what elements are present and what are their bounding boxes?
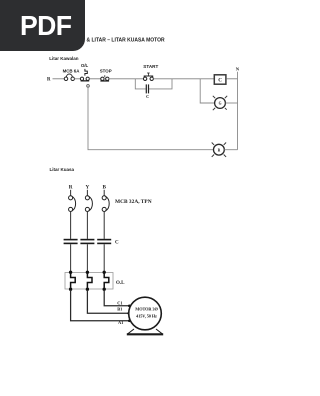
- svg-text:R: R: [47, 78, 51, 83]
- motor terminal C1: [128, 305, 131, 308]
- breaker MCB 6A: [64, 74, 74, 81]
- wire lamp R to N: [224, 149, 237, 151]
- svg-text:Litar Kuasa: Litar Kuasa: [50, 167, 75, 172]
- svg-text:Y: Y: [86, 185, 90, 191]
- breaker MCB pole Y: [85, 196, 92, 212]
- svg-text:R: R: [218, 148, 221, 152]
- wire Y MCB to contact: [86, 211, 88, 239]
- wire B contact to O/L: [103, 244, 105, 272]
- wire R contact to O/L: [70, 244, 72, 272]
- wire B MCB to contact: [103, 211, 105, 239]
- svg-text:A1: A1: [118, 320, 123, 325]
- wire R to motor A1: [71, 291, 129, 321]
- wire START to coil C: [153, 78, 214, 80]
- contact C pole R (contactor main): [64, 239, 78, 244]
- svg-text:MCB 6A: MCB 6A: [63, 69, 81, 74]
- wire R MCB to contact: [70, 211, 72, 239]
- pushbutton STOP (NC): [100, 75, 109, 81]
- wire branch down to lamp G: [200, 79, 214, 103]
- wire coil to N: [226, 78, 237, 80]
- svg-text:B: B: [102, 185, 106, 191]
- coil C (contactor coil): [214, 75, 226, 84]
- wire N line: [237, 72, 239, 150]
- motor terminal A1: [128, 320, 131, 323]
- contact C (holding contact): [146, 84, 149, 93]
- wire phase Y top: [86, 190, 88, 196]
- heater element pole Y: [86, 271, 92, 291]
- lamp G (run indicator): [213, 96, 227, 110]
- motor M (3 phase): [129, 297, 162, 330]
- svg-text:START: START: [143, 64, 158, 69]
- svg-text:B1: B1: [117, 307, 122, 312]
- wire STOP to START: [109, 78, 144, 80]
- svg-text:& LITAR – LITAR KUASA MOTOR: & LITAR – LITAR KUASA MOTOR: [87, 37, 166, 43]
- wire holding-branch left drop: [135, 79, 146, 89]
- wire MCB to O/L: [74, 78, 80, 80]
- wire R to MCB: [53, 78, 65, 80]
- svg-text:G: G: [219, 102, 222, 106]
- contact C pole Y: [80, 239, 94, 244]
- wire lamp G to N: [225, 102, 237, 104]
- wire B to motor C1: [104, 291, 129, 306]
- svg-text:STOP: STOP: [100, 68, 112, 73]
- breaker MCB pole B: [102, 196, 109, 212]
- PDF badge: [0, 0, 85, 51]
- svg-text:C1: C1: [117, 301, 122, 306]
- wire O/L to STOP: [89, 78, 101, 80]
- overload box O.L: [65, 273, 113, 290]
- wire Y to motor B1: [87, 291, 129, 313]
- svg-text:Litar Kawalan: Litar Kawalan: [49, 56, 79, 61]
- heater element pole R: [69, 271, 75, 291]
- svg-text:415V, 50 Hz: 415V, 50 Hz: [136, 314, 157, 319]
- heater element pole B: [103, 271, 109, 291]
- svg-text:C: C: [146, 94, 149, 99]
- svg-text:R: R: [69, 185, 73, 191]
- wire down from O/L terminal to lamp row: [88, 87, 214, 149]
- pushbutton START (NO): [143, 73, 153, 81]
- svg-text:MCB 32A, TPN: MCB 32A, TPN: [115, 199, 152, 205]
- wire holding-branch right drop: [149, 79, 172, 89]
- svg-text:MOTOR 3Ø: MOTOR 3Ø: [135, 306, 158, 311]
- wire phase R top: [70, 190, 72, 196]
- wire phase B top: [103, 190, 105, 196]
- contact C pole B: [97, 239, 111, 244]
- motor terminal B1: [127, 312, 130, 315]
- svg-text:O/L: O/L: [81, 63, 89, 68]
- contact O/L (NC overload contact): [80, 69, 89, 82]
- wire Y contact to O/L: [86, 244, 88, 272]
- svg-text:C: C: [218, 78, 222, 84]
- lamp R (off indicator): [212, 143, 226, 157]
- breaker MCB pole R: [69, 196, 76, 212]
- svg-text:C: C: [115, 240, 119, 245]
- svg-text:O.L: O.L: [116, 281, 125, 286]
- terminal circle below O/L: [87, 85, 90, 88]
- motor base: [127, 329, 163, 334]
